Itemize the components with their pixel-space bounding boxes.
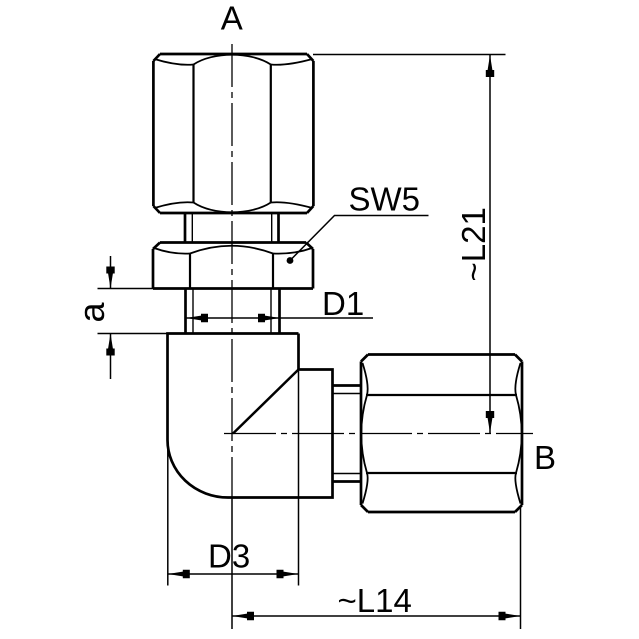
svg-text:~L14: ~L14 [338, 582, 412, 619]
svg-text:A: A [221, 0, 243, 37]
svg-text:D3: D3 [208, 538, 250, 575]
svg-text:SW5: SW5 [349, 181, 421, 218]
svg-text:B: B [534, 439, 556, 476]
svg-text:D1: D1 [322, 285, 364, 322]
svg-text:~L21: ~L21 [455, 207, 492, 281]
svg-text:a: a [71, 302, 112, 323]
